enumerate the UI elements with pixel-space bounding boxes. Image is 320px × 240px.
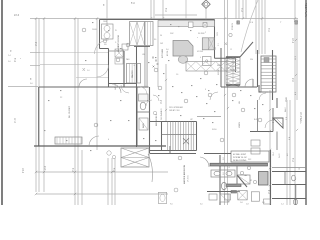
bath wall <box>136 87 138 146</box>
dimension line V5 <box>81 150 83 205</box>
under-stair diagonal wall <box>240 42 253 57</box>
keynote 2 <box>158 86 162 90</box>
svg-text:1-6: 1-6 <box>240 202 243 204</box>
svg-text:3'-8: 3'-8 <box>286 117 288 120</box>
sink <box>188 22 193 27</box>
svg-text:42 ISL: 42 ISL <box>167 51 169 56</box>
bottom hatched wall <box>226 184 241 187</box>
dimension line V0 <box>35 18 37 192</box>
kitchen counter run <box>158 21 215 27</box>
dimension line V13 <box>162 0 164 19</box>
diamond leader <box>205 8 207 19</box>
dimension line V11 <box>150 0 152 19</box>
dresser shelf <box>55 137 82 144</box>
svg-text:x: x <box>197 37 198 39</box>
svg-text:3-8: 3-8 <box>223 172 225 175</box>
svg-text:5-4: 5-4 <box>281 204 284 206</box>
right room wall v <box>276 98 278 108</box>
hall stub wall <box>150 121 162 123</box>
svg-text:5'-2: 5'-2 <box>286 97 288 100</box>
closet cabinetry <box>238 191 247 200</box>
landing edge <box>197 116 221 118</box>
dimension line V8 <box>111 158 113 205</box>
svg-text:10-4: 10-4 <box>273 152 275 156</box>
kitchen right wall <box>214 20 216 59</box>
svg-text:MASTER BEDROOM: MASTER BEDROOM <box>183 164 186 184</box>
svg-text:6: 6 <box>200 57 201 59</box>
dimension line V18 <box>242 0 244 19</box>
dimension line V30 <box>157 26 159 87</box>
stair left wall <box>161 122 163 151</box>
dimension line V17 <box>238 0 240 19</box>
porch post 2 <box>295 21 298 24</box>
dimension line V6 <box>96 18 98 150</box>
corner shower <box>273 118 283 128</box>
svg-text:36: 36 <box>160 35 162 37</box>
dimension line V7 <box>107 158 109 205</box>
right room wall h <box>250 131 273 133</box>
dimension line V4 <box>77 18 79 205</box>
dimension line V12 <box>153 0 155 19</box>
upper hall wall <box>220 48 222 87</box>
sheet left border <box>1 0 3 205</box>
bottom-left exterior wall <box>34 145 166 147</box>
washer dryer <box>130 22 145 46</box>
right room wall c <box>272 198 306 200</box>
hall arc 2 <box>210 92 218 100</box>
junction stub <box>169 146 171 154</box>
svg-text:42: 42 <box>250 180 252 182</box>
dim v 186 <box>185 0 187 19</box>
master right wall <box>219 155 221 205</box>
dimension line V16 <box>235 0 237 19</box>
svg-text:5-0: 5-0 <box>223 157 225 160</box>
svg-text:2: 2 <box>205 32 206 34</box>
svg-text:LINEN: LINEN <box>239 122 241 128</box>
angled wall <box>237 175 247 187</box>
keynote 3 <box>184 99 188 103</box>
keynote circles br <box>240 171 243 174</box>
svg-text:2X10 STRINGER: 2X10 STRINGER <box>169 107 184 109</box>
svg-text:DW: DW <box>160 43 163 45</box>
svg-text:3-0: 3-0 <box>166 49 169 51</box>
svg-text:W/ BLOCKING: W/ BLOCKING <box>233 160 247 162</box>
stair right wall <box>196 122 198 151</box>
bench boxes bottom <box>209 194 217 200</box>
nook keynote <box>229 33 232 36</box>
svg-text:W.I. CLOSET: W.I. CLOSET <box>69 105 71 118</box>
hall arc 1 <box>153 95 159 101</box>
left exterior wall <box>38 87 40 146</box>
svg-text:24'-6: 24'-6 <box>14 15 20 17</box>
dimension line V15 <box>227 0 229 205</box>
keynote 9 <box>116 58 120 62</box>
bath fixtures <box>139 94 149 101</box>
dimension line V14 <box>224 0 226 205</box>
toilet right <box>292 175 296 181</box>
svg-text:LIN: LIN <box>142 54 146 56</box>
dimension line V10 <box>106 0 108 26</box>
keynote 4 <box>208 93 212 97</box>
dimension line V23 <box>264 0 266 54</box>
svg-text:4'-0: 4'-0 <box>295 92 297 95</box>
bath divider <box>137 111 150 113</box>
svg-text:16R AT 7-3/4: 16R AT 7-3/4 <box>169 109 179 112</box>
svg-text:ROOF PLAN: ROOF PLAN <box>304 3 307 17</box>
hall counter strip <box>144 46 147 86</box>
tall cabinets <box>202 38 214 50</box>
hall top seg <box>134 46 150 48</box>
dimension line V26 <box>269 90 271 205</box>
svg-text:9-2: 9-2 <box>134 63 136 66</box>
door arc master entry <box>148 154 153 182</box>
central staircase <box>167 122 169 135</box>
svg-text:LIN: LIN <box>239 100 241 104</box>
dimension line H6 <box>36 193 168 195</box>
sheet right border <box>305 0 307 205</box>
door arc hall <box>112 84 121 93</box>
vanity <box>211 170 235 177</box>
island table <box>178 56 188 64</box>
pantry bottom wall <box>109 83 137 85</box>
svg-text:WC: WC <box>248 159 252 161</box>
wall oven box <box>203 57 212 66</box>
laundry sink box <box>122 44 128 50</box>
svg-text:17 X 16: 17 X 16 <box>188 175 190 182</box>
wic wall <box>149 87 151 154</box>
fixture circle <box>174 188 178 192</box>
svg-text:5-0: 5-0 <box>8 61 11 63</box>
laundry left wall <box>99 20 101 49</box>
dimension ticks <box>35 17 37 19</box>
svg-text:11'-2: 11'-2 <box>295 56 297 60</box>
dimension line V27 <box>286 100 288 205</box>
laundry tub <box>102 24 114 39</box>
bedroom top wall <box>39 86 149 88</box>
dimension line V29 <box>165 64 167 121</box>
svg-text:x: x <box>20 58 21 60</box>
right small boxes <box>251 140 260 146</box>
right room wall a <box>272 171 306 173</box>
svg-text:9-6: 9-6 <box>170 204 173 206</box>
bath door arcs right <box>259 93 266 100</box>
right room wall b <box>272 184 306 186</box>
svg-text:14'-2: 14'-2 <box>21 168 23 174</box>
svg-text:SEAT: SEAT <box>217 64 221 67</box>
keynote 1 <box>126 43 130 47</box>
svg-text:2868: 2868 <box>103 21 107 23</box>
dimension line H4 <box>155 14 197 16</box>
svg-text:12: 12 <box>230 49 232 51</box>
keynote 13 <box>258 118 262 122</box>
range X <box>203 23 207 28</box>
svg-text:LAUNDRY ROOM: LAUNDRY ROOM <box>117 35 120 52</box>
master door arc <box>200 157 209 167</box>
master top wall <box>150 153 196 155</box>
stair side hatch <box>226 57 240 85</box>
svg-text:PANTRY: PANTRY <box>131 69 134 78</box>
stub hatch <box>231 191 237 194</box>
laundry jog wall <box>100 48 109 50</box>
dimension line V2 <box>43 18 45 192</box>
annotation specks <box>148 62 149 63</box>
wall x277 lower <box>276 132 278 151</box>
svg-text:NOOK: NOOK <box>218 68 220 75</box>
right jamb 2 <box>295 185 297 206</box>
keynote 6 <box>154 68 158 72</box>
deck keynote <box>103 39 107 43</box>
deck dim line 3 <box>76 77 108 79</box>
laundry closet shelves <box>145 22 153 46</box>
dimension line V9 <box>114 158 116 205</box>
nook top wall <box>215 57 236 59</box>
nook xmark <box>225 43 228 46</box>
dimension line H3 <box>8 86 38 88</box>
dimension line V1 <box>38 18 40 192</box>
dimension line V20 <box>255 0 257 54</box>
svg-text:2-6: 2-6 <box>229 165 231 168</box>
stair bottom wall <box>150 150 197 152</box>
svg-text:5'-6: 5'-6 <box>250 22 253 24</box>
svg-text:3-6: 3-6 <box>87 70 90 72</box>
right jamb 1 <box>284 172 286 185</box>
bath hatched wall <box>210 163 268 166</box>
keynote 8 <box>220 138 224 142</box>
hall arc a <box>140 87 147 94</box>
hall wall <box>136 47 138 148</box>
extra ticks mid <box>224 94 226 96</box>
dimension line V22 <box>261 0 263 54</box>
pantry shelves <box>127 64 141 84</box>
kitchen island <box>173 41 193 57</box>
dimension line V21 <box>258 0 260 54</box>
bottom wall seg <box>207 191 231 193</box>
deck dim line 2 <box>40 63 108 65</box>
svg-text:PORCH: PORCH <box>232 22 234 30</box>
deck dim line 1 <box>40 52 108 54</box>
keynote 11 <box>232 93 236 97</box>
svg-text:2X12 AT 16 OC: 2X12 AT 16 OC <box>233 156 247 159</box>
nook right wall <box>235 58 237 72</box>
door arc bedroom <box>89 136 99 146</box>
deck x mark <box>83 68 86 71</box>
staircase upper-right treads <box>261 56 276 92</box>
keynote 12 <box>178 156 182 160</box>
svg-text:10'-2: 10'-2 <box>291 38 293 44</box>
stair top wall <box>162 121 197 123</box>
porch post 1 <box>237 21 240 24</box>
right room wall L <box>259 85 268 92</box>
svg-text:42 REF: 42 REF <box>197 51 204 53</box>
window bench <box>186 62 236 72</box>
dimension line V25 <box>296 19 298 100</box>
closet main wall <box>270 150 272 205</box>
svg-text:2-4: 2-4 <box>8 55 11 57</box>
top exterior wall <box>100 19 215 21</box>
svg-text:16'-0 WALL: 16'-0 WALL <box>299 112 302 125</box>
keynote 7 <box>241 108 245 112</box>
svg-text:3-0: 3-0 <box>200 204 203 206</box>
deck door arc 2 <box>97 65 109 77</box>
pantry left wall <box>123 51 125 87</box>
dimension line V3 <box>74 18 76 205</box>
lower stair wall L <box>257 50 259 87</box>
dimension line H2 <box>30 65 40 67</box>
svg-text:2-8: 2-8 <box>246 204 249 206</box>
hall-stair wall <box>221 86 257 88</box>
deck door arc 1 <box>95 40 109 54</box>
dimension line H5 <box>36 171 168 173</box>
lower stair wall R <box>272 50 274 100</box>
dimension line V28 <box>289 100 291 205</box>
keynote 0 <box>82 28 86 32</box>
keynote 10 <box>204 71 208 75</box>
roof curve <box>241 0 258 52</box>
hall circle <box>153 111 156 114</box>
laundry bottom wall <box>109 50 125 52</box>
dimension line H0 <box>30 18 298 20</box>
diamond tag <box>202 0 210 8</box>
deck right wall <box>108 49 110 88</box>
svg-text:4X DBL JOIST: 4X DBL JOIST <box>233 154 247 156</box>
note box <box>231 151 269 162</box>
right room wall v2 <box>272 108 274 132</box>
svg-text:KITCHEN: KITCHEN <box>162 48 164 58</box>
svg-text:BEDROOM 2: BEDROOM 2 <box>156 113 158 126</box>
door arc deck <box>79 79 87 87</box>
dimension line H1 <box>30 52 40 54</box>
toilet <box>221 182 226 189</box>
gray chase <box>259 172 269 186</box>
pantry X boxes <box>115 49 123 57</box>
right room wall d <box>272 167 306 169</box>
svg-text:2-1: 2-1 <box>218 43 220 46</box>
svg-text:4-6: 4-6 <box>287 153 289 156</box>
svg-text:W.I.C.: W.I.C. <box>279 153 281 158</box>
stair door arc <box>245 79 253 87</box>
svg-text:11'-0: 11'-0 <box>13 118 15 124</box>
hall arc b <box>146 100 152 106</box>
small wall stub <box>236 166 238 184</box>
svg-text:3-6: 3-6 <box>30 83 33 85</box>
svg-text:6'-4: 6'-4 <box>289 137 291 140</box>
patio X box <box>121 148 149 167</box>
keynote 5 <box>94 123 98 127</box>
right mid wall <box>257 100 259 132</box>
dimension line V19 <box>245 0 247 19</box>
svg-text:HALL: HALL <box>114 84 117 90</box>
dimension line V24 <box>294 0 296 205</box>
svg-text:36 REF: 36 REF <box>198 33 206 35</box>
tub oval <box>158 192 166 203</box>
master top wall 2 <box>204 153 231 155</box>
xmark cluster <box>152 57 159 68</box>
bottom extra boxes <box>225 194 231 200</box>
svg-text:DW: DW <box>170 33 173 35</box>
shower <box>237 175 250 184</box>
